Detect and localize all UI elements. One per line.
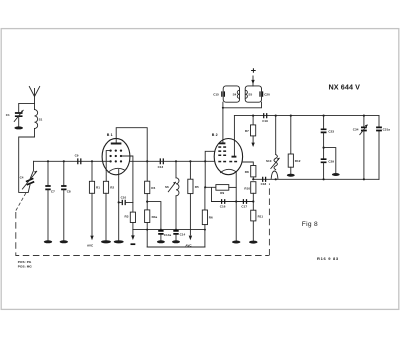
capacitor C34 (trimmer)	[353, 115, 368, 181]
capacitor C10 (cathode tee)	[118, 195, 133, 205]
svg-text:R1: R1	[96, 186, 100, 190]
svg-text:R12: R12	[295, 159, 301, 163]
resistor R4a	[145, 210, 158, 247]
resistor R1	[87, 161, 100, 247]
svg-text:C23: C23	[328, 129, 334, 133]
svg-text:S5: S5	[248, 92, 252, 96]
svg-text:C34: C34	[353, 128, 359, 132]
svg-text:R3: R3	[125, 215, 129, 219]
resistor R11	[251, 202, 264, 241]
svg-text:C16: C16	[220, 205, 226, 209]
ground (under R11)	[249, 241, 257, 244]
node cathode/C16 line	[235, 200, 237, 202]
ground (under R2)	[101, 240, 111, 243]
svg-text:R6: R6	[209, 215, 213, 219]
svg-text:C1: C1	[6, 113, 10, 117]
dashed tuning link	[16, 192, 26, 210]
wire grid bus B1 to B2	[130, 160, 215, 162]
svg-text:R5: R5	[195, 185, 199, 189]
svg-text:S10: S10	[266, 159, 272, 163]
IF transformer left can	[213, 86, 239, 102]
node bus/B2-grid-return	[204, 160, 206, 162]
wire B2 cathode to ground	[235, 172, 237, 241]
svg-text:C14a: C14a	[164, 233, 172, 237]
svg-text:R10: R10	[244, 186, 250, 190]
+ supply entry	[251, 68, 256, 86]
wire B+ rail	[234, 115, 379, 117]
resistor R3	[125, 212, 136, 230]
svg-text:R7: R7	[245, 129, 249, 133]
wire to R9 / C16	[205, 187, 216, 201]
wire B2 left pin down	[205, 151, 214, 187]
potentiometer S10 (regen control)	[266, 115, 280, 170]
pentode B2	[212, 133, 243, 175]
svg-text:R2: R2	[110, 186, 114, 190]
svg-text:Fig 8: Fig 8	[302, 221, 318, 228]
inductor S6 (oscillator, variable)	[165, 160, 179, 229]
inductor S1	[35, 103, 43, 137]
resistor R4	[145, 181, 156, 210]
wire grid bus	[34, 160, 103, 162]
capacitor C19 (series on rail)	[262, 113, 268, 123]
svg-text:C15: C15	[213, 92, 219, 96]
svg-text:C31a: C31a	[383, 128, 391, 132]
svg-text:AVC: AVC	[87, 243, 94, 247]
resistor R6	[202, 187, 213, 247]
svg-text:B 1: B 1	[107, 133, 113, 137]
ground (under R12)	[287, 174, 295, 177]
svg-text:NX 644 V: NX 644 V	[329, 83, 361, 92]
ground (under C7)	[44, 240, 52, 243]
wire horizontal return A	[133, 229, 205, 231]
ground (under C14)	[172, 240, 180, 243]
capacitor C4 (variable, tuning)	[20, 161, 37, 192]
wire B1 cathode	[118, 170, 120, 241]
capacitor C31a (right corner)	[376, 116, 390, 180]
svg-text:B 2: B 2	[212, 133, 218, 137]
capacitor C13 (series on bus)	[158, 158, 164, 169]
ground (B1 cathode)	[114, 240, 124, 243]
wire B2 plate to R8	[243, 162, 254, 166]
svg-text:R16 9 83: R16 9 83	[317, 256, 339, 261]
svg-text:C20: C20	[264, 92, 270, 96]
node R4/R4a junction	[146, 201, 148, 203]
antenna	[29, 87, 39, 104]
capacitor C14	[173, 231, 185, 241]
wire B1 screen pin to R3	[121, 156, 133, 212]
capacitor C16	[220, 199, 226, 209]
dashed chassis border	[16, 212, 269, 256]
svg-text:POS: MG: POS: MG	[18, 265, 33, 269]
resistor R9 (horizontal)	[216, 185, 236, 196]
svg-text:R4a: R4a	[152, 215, 158, 219]
wire B1 anode top run	[116, 128, 147, 182]
node anode/bus crossing	[146, 160, 148, 162]
triode B1	[102, 133, 130, 175]
node bus-C7	[47, 160, 49, 162]
svg-text:C10: C10	[121, 195, 127, 199]
ground (under C8)	[60, 240, 68, 243]
resistor R8	[245, 166, 256, 180]
wire IF cans bottom U	[223, 102, 262, 108]
node bus-C8	[63, 160, 65, 162]
ground stub (C23/C29 midpoint)	[323, 147, 336, 173]
capacitor C1 (trimmer)	[6, 110, 23, 126]
capacitor C9 (series on bus)	[75, 154, 81, 165]
capacitor C8	[61, 161, 71, 240]
node bus-R1	[91, 160, 93, 162]
resistor R10 (volume)	[244, 182, 256, 202]
svg-text:C8: C8	[67, 190, 71, 194]
wire horizontal return B	[147, 246, 205, 248]
resistor R2 (B1 left pin)	[103, 171, 114, 241]
capacitor C23	[321, 115, 335, 159]
wire C16/C17 line	[212, 201, 254, 203]
capacitor C17	[241, 199, 247, 209]
svg-text:C14: C14	[180, 232, 186, 236]
svg-text:R9: R9	[220, 191, 224, 195]
svg-text:C13: C13	[158, 165, 164, 169]
wire B2 screen drop	[233, 116, 235, 156]
svg-text:R4: R4	[151, 186, 155, 190]
resistor R5	[185, 160, 199, 247]
capacitor C29	[321, 159, 335, 180]
IF transformer right can	[245, 86, 270, 102]
svg-text:C17: C17	[241, 205, 247, 209]
svg-text:POS: PG: POS: PG	[18, 260, 32, 264]
earpiece dome	[271, 171, 278, 180]
svg-text:C19: C19	[262, 119, 268, 123]
svg-text:R11: R11	[258, 214, 264, 218]
svg-text:C18: C18	[261, 182, 267, 186]
resistor R7	[245, 115, 256, 148]
capacitor C14a	[158, 231, 171, 241]
wire coil bottom to tuning branch	[19, 137, 35, 192]
capacitor C7	[45, 161, 55, 240]
wire antenna junction to left branch	[19, 103, 35, 111]
ground (under C1)	[14, 126, 23, 129]
svg-text:C29: C29	[328, 159, 334, 163]
svg-text:R8: R8	[245, 170, 249, 174]
node R8/C18	[252, 178, 254, 180]
arrow + bar below R3	[131, 230, 136, 245]
wire output line	[253, 178, 379, 180]
svg-text:C7: C7	[51, 190, 55, 194]
ground (B2 cathode)	[232, 241, 240, 244]
svg-text:C4: C4	[20, 175, 24, 179]
capacitor C18	[261, 177, 267, 187]
svg-text:S1: S1	[39, 118, 43, 122]
svg-text:S4: S4	[233, 92, 237, 96]
wire IF left can to B2 grid cap	[222, 102, 224, 142]
svg-text:C9: C9	[75, 154, 79, 158]
resistor R12	[288, 115, 301, 174]
ground (under C14a)	[157, 240, 165, 243]
wire junction to C14a	[147, 202, 161, 230]
svg-text:S6: S6	[165, 185, 169, 189]
